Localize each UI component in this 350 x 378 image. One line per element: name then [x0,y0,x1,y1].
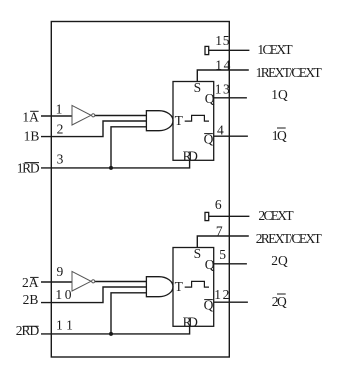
svg-text:1A: 1A [22,109,39,124]
svg-text:2CEXT: 2CEXT [258,208,294,223]
svg-text:2REXT/CEXT: 2REXT/CEXT [256,231,323,246]
svg-text:Q: Q [204,132,214,147]
svg-text:1REXT/CEXT: 1REXT/CEXT [256,65,323,80]
svg-text:S: S [194,80,202,95]
svg-text:Q: Q [204,298,214,313]
svg-text:2Q: 2Q [271,253,288,268]
svg-text:12: 12 [214,287,229,302]
svg-text:13: 13 [215,82,230,97]
svg-text:1CEXT: 1CEXT [257,42,293,57]
svg-text:2: 2 [57,121,64,136]
svg-text:T: T [175,279,184,294]
svg-text:1B: 1B [24,129,40,144]
svg-text:1: 1 [56,101,63,116]
svg-text:1Q: 1Q [272,128,287,143]
svg-text:T: T [175,113,184,128]
svg-text:Q: Q [205,91,215,106]
svg-text:2RD: 2RD [16,323,40,338]
svg-text:6: 6 [215,197,222,212]
svg-text:1Q: 1Q [271,87,288,102]
svg-text:14: 14 [215,57,230,72]
svg-text:3: 3 [57,152,64,167]
svg-text:10: 10 [55,287,71,302]
svg-text:RD: RD [183,148,199,163]
svg-text:Q: Q [205,257,215,272]
svg-text:RD: RD [183,314,199,329]
svg-text:9: 9 [57,264,64,279]
svg-text:S: S [194,246,202,261]
svg-text:4: 4 [217,122,224,137]
svg-text:2B: 2B [23,292,39,307]
svg-text:11: 11 [56,318,73,333]
svg-text:2Q: 2Q [272,294,287,309]
svg-text:1RD: 1RD [17,161,40,176]
svg-text:5: 5 [219,247,226,262]
svg-text:15: 15 [215,33,229,48]
svg-text:2A: 2A [22,275,39,290]
svg-text:7: 7 [216,223,223,238]
